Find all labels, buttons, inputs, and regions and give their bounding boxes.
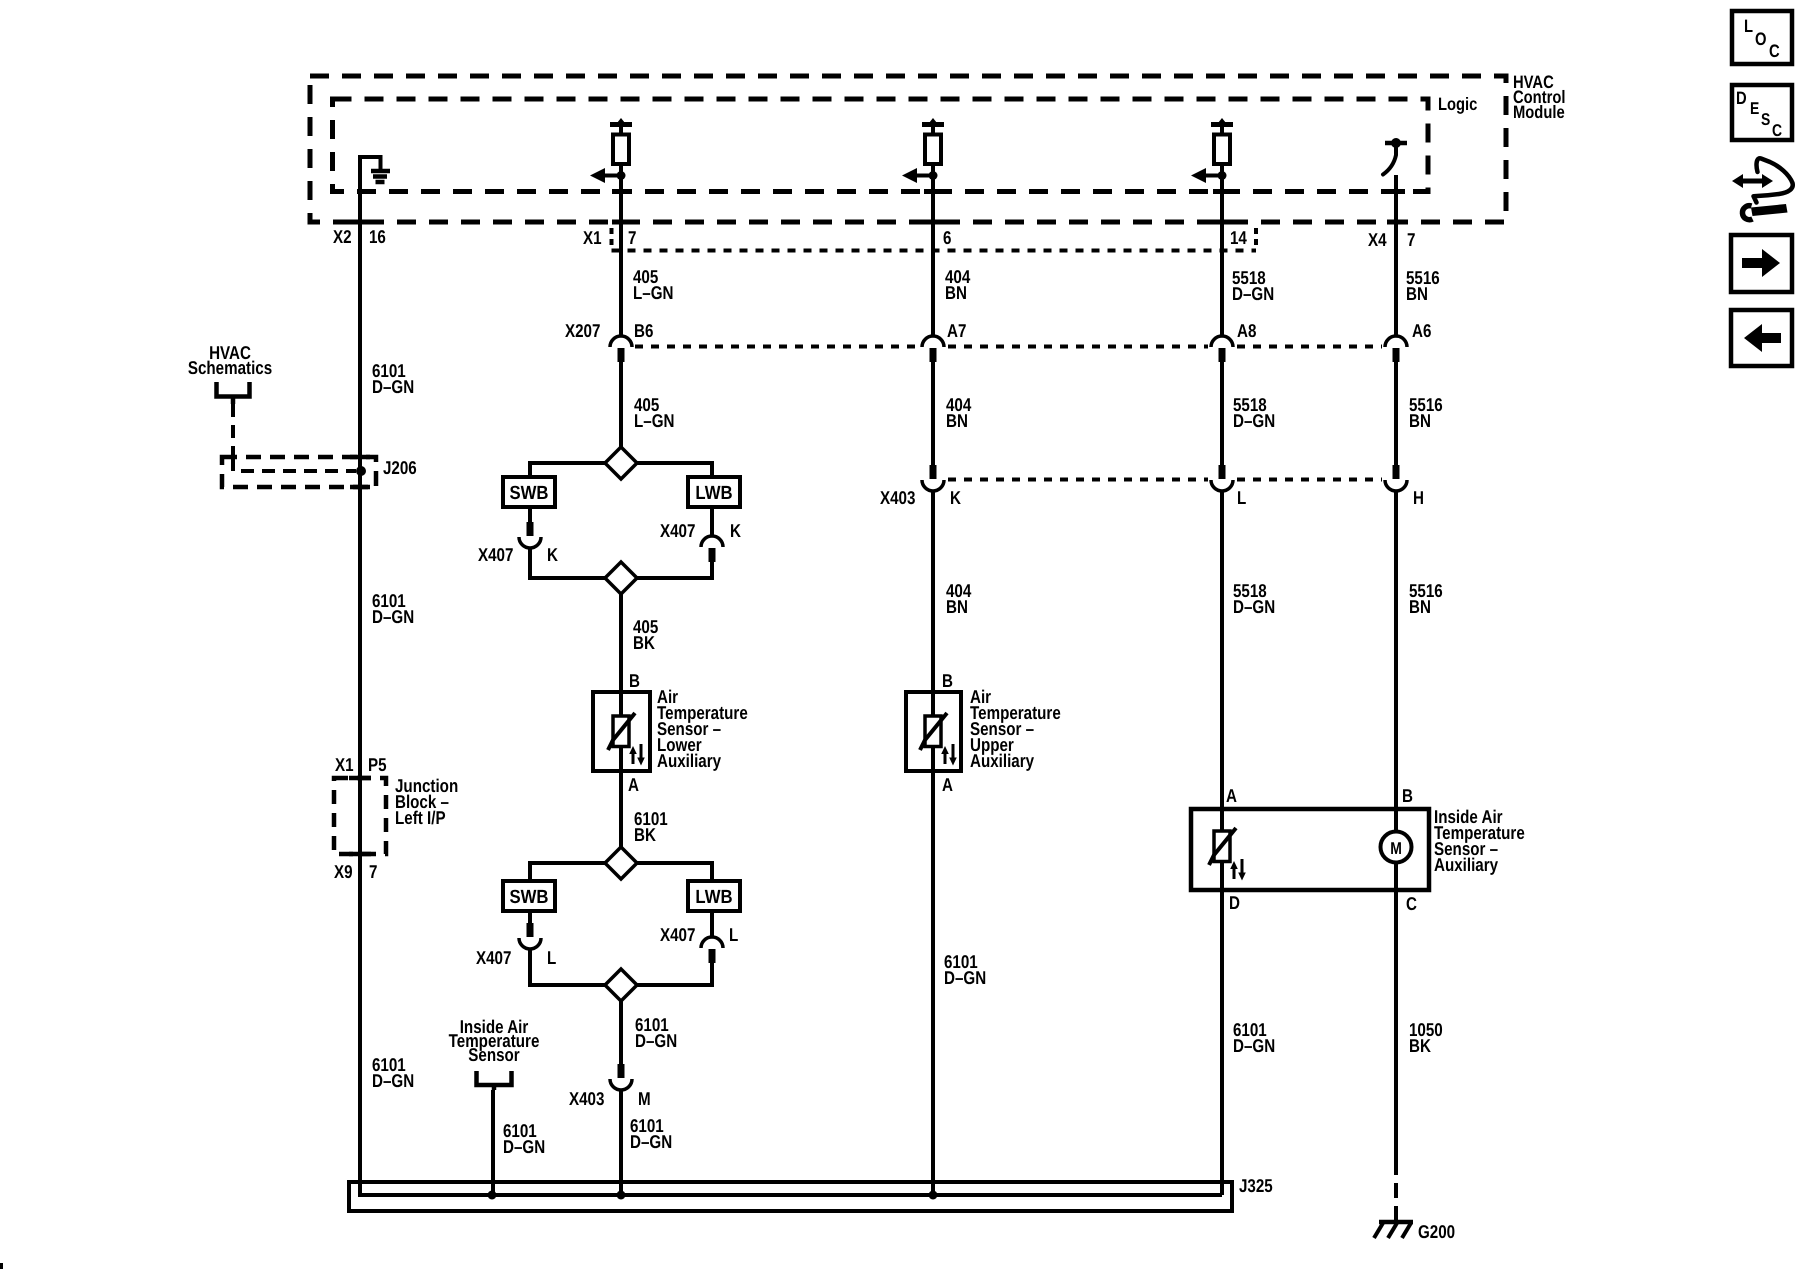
- connector X407 pin L (SWB side): [519, 923, 541, 949]
- svg-text:D–GN: D–GN: [503, 1136, 545, 1157]
- svg-text:D–GN: D–GN: [1233, 410, 1275, 431]
- svg-text:C: C: [1406, 893, 1417, 914]
- label 6101 D-GN (left wire, lower): [372, 1054, 414, 1091]
- connector X407 pin K (SWB side): [519, 522, 541, 548]
- svg-text:Left I/P: Left I/P: [395, 807, 446, 828]
- HVAC Control Module outer dashed box: [310, 76, 1506, 222]
- svg-text:D–GN: D–GN: [944, 967, 986, 988]
- label 405 L-GN: [634, 394, 674, 431]
- wire branch2 404 BN (X207-A7 to X403-K): [931, 362, 935, 465]
- signal arrow to logic from R2: [902, 168, 933, 183]
- svg-text:A: A: [628, 774, 639, 795]
- signal arrow to logic from R1: [590, 168, 621, 183]
- connector X207 pin B6: [610, 336, 632, 362]
- wire SWB drop: [528, 463, 532, 477]
- svg-text:D–GN: D–GN: [1233, 596, 1275, 617]
- svg-text:C: C: [1772, 121, 1782, 140]
- splice diamond S2 upper: [605, 562, 637, 594]
- svg-text:P5: P5: [368, 754, 387, 775]
- svg-text:D–GN: D–GN: [630, 1131, 672, 1152]
- svg-text:BN: BN: [1409, 596, 1431, 617]
- icon DESC button: [1732, 85, 1792, 140]
- Junction Block - Left I/P dashed box: [334, 778, 386, 854]
- svg-text:BN: BN: [945, 282, 967, 303]
- svg-text:X407: X407: [478, 544, 513, 565]
- svg-text:A: A: [1226, 785, 1237, 806]
- ground symbol inside module: [360, 157, 390, 182]
- label 6101 D-GN: [630, 1115, 672, 1152]
- icon back arrow button: [1731, 310, 1792, 366]
- wire branch1 6101 D-GN (splice to X403-M): [619, 1001, 623, 1064]
- wire dashed inside J206: [233, 458, 356, 471]
- svg-text:A: A: [942, 774, 953, 795]
- wire dashed to G200: [1394, 1160, 1398, 1221]
- svg-text:D: D: [1229, 892, 1240, 913]
- svg-text:D–GN: D–GN: [1232, 283, 1274, 304]
- svg-text:D–GN: D–GN: [372, 376, 414, 397]
- label Junction Block - Left I/P: [395, 775, 458, 828]
- label 6101 D-GN (left wire, upper): [372, 360, 414, 397]
- pin X1 7: [583, 227, 636, 248]
- svg-text:G200: G200: [1418, 1221, 1455, 1242]
- splice pack J206 dashed box: [222, 457, 376, 487]
- junction dot under R1: [617, 171, 626, 180]
- wire splice horizontal lower: [528, 576, 714, 580]
- wire left main (X2-16 circuit 6101 D-GN): [358, 155, 362, 1195]
- svg-text:BK: BK: [633, 632, 655, 653]
- svg-text:LWB: LWB: [695, 887, 732, 908]
- svg-text:A8: A8: [1237, 320, 1256, 341]
- svg-text:C: C: [1769, 41, 1780, 61]
- svg-text:D: D: [1736, 88, 1747, 108]
- thermistor element inside air temp sensor aux: [1209, 828, 1246, 881]
- wire LWB to X407 (lower): [710, 911, 714, 937]
- connector X403 dotted line: [948, 478, 1382, 482]
- splice diamond S2 lower: [605, 969, 637, 1001]
- label X407 L left: [476, 947, 556, 968]
- svg-text:D–GN: D–GN: [372, 1070, 414, 1091]
- label 6101 D-GN: [944, 951, 986, 988]
- wire X407 to lower splice right: [710, 562, 714, 578]
- junction dot (sensor wire to bus): [488, 1191, 497, 1200]
- base LWB (long wheel base) upper: [688, 477, 740, 507]
- junction dot under R3: [1218, 171, 1227, 180]
- svg-text:J325: J325: [1239, 1175, 1273, 1196]
- svg-text:Auxiliary: Auxiliary: [657, 750, 722, 771]
- thermistor element sensor lower auxiliary: [608, 713, 645, 766]
- svg-text:BN: BN: [946, 410, 968, 431]
- svg-text:M: M: [638, 1088, 651, 1109]
- dash ticks at wire crossings of dashed boxes: [349, 192, 1405, 855]
- wire dashed HVAC Schematics to J206: [231, 404, 235, 457]
- svg-text:6: 6: [943, 227, 951, 248]
- junction dot under R2: [929, 171, 938, 180]
- wire branch1 405 BK (splice to sensor B): [619, 594, 623, 692]
- svg-text:O: O: [1755, 29, 1766, 49]
- splice diamond S1 upper: [605, 447, 637, 479]
- label 6101 D-GN: [503, 1120, 545, 1157]
- ground bus J325 inner wire: [358, 1193, 1222, 1197]
- pin X1 P5 (junction block): [335, 754, 387, 775]
- svg-text:16: 16: [369, 226, 386, 247]
- junction dot switch S1: [1391, 138, 1401, 148]
- svg-text:7: 7: [628, 227, 636, 248]
- label HVAC Control Module: [1513, 72, 1565, 122]
- svg-text:X1: X1: [583, 227, 602, 248]
- label 6101 D-GN (left wire, middle): [372, 590, 414, 627]
- svg-text:X1: X1: [335, 754, 354, 775]
- svg-text:D–GN: D–GN: [1233, 1035, 1275, 1056]
- bracket HVAC Schematics: [217, 382, 250, 404]
- svg-text:L: L: [1744, 16, 1753, 36]
- junction dot J206: [356, 466, 366, 476]
- label 5516 BN: [1409, 394, 1443, 431]
- svg-text:B: B: [629, 670, 640, 691]
- resistor R2 (pull-up inside HVAC control module): [922, 118, 944, 178]
- svg-text:B: B: [1402, 785, 1413, 806]
- svg-text:BN: BN: [1406, 283, 1428, 304]
- svg-text:BK: BK: [634, 824, 656, 845]
- svg-text:X407: X407: [476, 947, 511, 968]
- connector X403 pin H: [1385, 465, 1407, 491]
- label 5516 BN: [1409, 580, 1443, 617]
- label 1050 BK: [1409, 1019, 1443, 1056]
- connector X1 bracket right: [1254, 228, 1258, 250]
- svg-text:K: K: [547, 544, 558, 565]
- svg-text:B: B: [942, 670, 953, 691]
- svg-text:LWB: LWB: [695, 483, 732, 504]
- wire LWB to X407: [710, 507, 714, 536]
- ground G200 symbol: [1374, 1222, 1413, 1238]
- svg-text:D–GN: D–GN: [635, 1030, 677, 1051]
- pin X9 7 (junction block): [334, 861, 377, 882]
- svg-text:7: 7: [369, 861, 377, 882]
- page artifact bottom left: [0, 1263, 3, 1269]
- connector X407 pin L (LWB side): [701, 937, 723, 963]
- connector X403 pin K: [922, 465, 944, 491]
- switch S1 (logic driver, X4-7 output): [1383, 143, 1407, 175]
- svg-text:K: K: [730, 520, 741, 541]
- wire branch1 6101 D-GN (X403-M to ground bus): [619, 1089, 623, 1195]
- wire inside air temp sensor 6101 D-GN to ground bus: [491, 1090, 495, 1195]
- wire branch4 5516 BN (X207-A6 to X403-H): [1394, 362, 1398, 465]
- splice diamond S1 lower: [605, 847, 637, 879]
- motor M (aspirator): [1381, 832, 1412, 863]
- label 6101 D-GN: [635, 1014, 677, 1051]
- label X403 M: [569, 1088, 651, 1109]
- label 5518 D-GN: [1233, 394, 1275, 431]
- svg-text:Module: Module: [1513, 102, 1565, 122]
- resistor R1 (pull-up inside HVAC control module): [610, 118, 632, 178]
- svg-text:Auxiliary: Auxiliary: [1434, 854, 1499, 875]
- label Air Temperature Sensor - Upper Auxiliary: [970, 686, 1061, 771]
- connector X1 dotted grouping line: [612, 249, 1257, 253]
- wire branch1 405 L-GN (X1-7 to X207-B6): [619, 164, 623, 336]
- base LWB lower: [688, 881, 740, 911]
- junction dot (branch1 to bus): [617, 1191, 626, 1200]
- svg-text:X407: X407: [660, 520, 695, 541]
- svg-text:X2: X2: [333, 226, 352, 247]
- icon LOC button: [1732, 11, 1792, 64]
- wire branch4 5516 BN then 1050 BK (X403-H to sensor and down): [1394, 490, 1398, 1160]
- bracket Inside Air Temperature Sensor: [477, 1071, 512, 1090]
- ground bus J325 box: [349, 1182, 1232, 1211]
- svg-text:L: L: [729, 924, 738, 945]
- pin X4 7: [1368, 229, 1415, 250]
- base SWB (short wheel base) upper: [503, 477, 555, 507]
- label X407 K left: [478, 544, 558, 565]
- svg-text:X403: X403: [569, 1088, 604, 1109]
- svg-text:X9: X9: [334, 861, 353, 882]
- svg-text:X407: X407: [660, 924, 695, 945]
- label 5518 D-GN: [1233, 580, 1275, 617]
- svg-text:L: L: [1237, 487, 1246, 508]
- connector X403 pin L: [1211, 465, 1233, 491]
- svg-text:L–GN: L–GN: [634, 410, 674, 431]
- wire X407 to lower splice left: [528, 547, 532, 578]
- thermistor element sensor upper auxiliary: [920, 713, 957, 766]
- wire SWB to X407: [528, 507, 532, 522]
- svg-text:E: E: [1750, 99, 1759, 118]
- label 5518 D-GN: [1232, 267, 1274, 304]
- svg-text:L: L: [547, 947, 556, 968]
- svg-text:SWB: SWB: [509, 483, 548, 504]
- resistor R3 (pull-up inside HVAC control module): [1211, 118, 1233, 178]
- Air Temperature Sensor - Upper Auxiliary box: [906, 692, 961, 771]
- svg-text:H: H: [1413, 487, 1424, 508]
- icon next arrow button: [1731, 235, 1792, 292]
- wire branch3 5518 D-GN then 6101 D-GN (X403-L to ground bus): [1220, 490, 1224, 1195]
- label 6101 BK: [634, 808, 668, 845]
- label 404 BN: [946, 580, 972, 617]
- label 404 BN: [946, 394, 972, 431]
- wire branch2 404 BN then 6101 D-GN (X403-K to ground bus): [931, 490, 935, 1195]
- label Inside Air Temperature Sensor - Auxiliary: [1434, 806, 1525, 875]
- connector X207 pin A8: [1211, 336, 1233, 362]
- svg-text:14: 14: [1230, 227, 1247, 248]
- svg-text:A7: A7: [947, 320, 966, 341]
- svg-text:BN: BN: [1409, 410, 1431, 431]
- label 405 BK: [633, 616, 658, 653]
- icon tools (double arrow and wrench): [1732, 158, 1793, 219]
- label 404 BN: [945, 266, 971, 303]
- wire branch2 404 BN (pin 6 to X207-A7): [931, 164, 935, 336]
- connector X207 pin A6: [1385, 336, 1407, 362]
- wire branch3 5518 D-GN (X207-A8 to X403-L): [1220, 362, 1224, 465]
- connector X407 pin K (LWB side): [701, 536, 723, 562]
- svg-text:S: S: [1761, 110, 1770, 129]
- svg-text:K: K: [950, 487, 961, 508]
- Air Temperature Sensor - Lower Auxiliary box: [593, 692, 650, 771]
- svg-text:X4: X4: [1368, 229, 1387, 250]
- pin X2 16: [333, 226, 386, 247]
- svg-text:SWB: SWB: [509, 887, 548, 908]
- wire branch4 5516 BN (X4-7 to X207-A6): [1394, 175, 1398, 336]
- label X407 L right: [660, 924, 738, 945]
- Logic inner dashed box: [333, 99, 1429, 192]
- label X407 K right: [660, 520, 741, 541]
- label 405 L-GN: [633, 266, 673, 303]
- svg-text:X403: X403: [880, 487, 915, 508]
- wire through sensor lower: [619, 692, 623, 771]
- svg-text:Sensor: Sensor: [468, 1044, 519, 1065]
- label Inside Air Temperature Sensor: [449, 1016, 540, 1065]
- connector X207 dotted line: [635, 345, 1382, 349]
- wire branch1 6101 BK (sensor A to splice): [619, 771, 623, 849]
- wire LWB drop: [710, 463, 714, 477]
- svg-text:Auxiliary: Auxiliary: [970, 750, 1035, 771]
- svg-text:L–GN: L–GN: [633, 282, 673, 303]
- svg-text:Logic: Logic: [1438, 94, 1477, 114]
- wire splice horizontal upper: [528, 461, 714, 465]
- label 6101 D-GN: [1233, 1019, 1275, 1056]
- base SWB lower: [503, 881, 555, 911]
- connector X1 bracket left: [610, 228, 614, 250]
- svg-text:B6: B6: [634, 320, 653, 341]
- svg-text:BN: BN: [946, 596, 968, 617]
- svg-text:7: 7: [1407, 229, 1415, 250]
- wire splice horizontal upper (lower section): [528, 861, 714, 865]
- label HVAC Schematics: [188, 342, 272, 378]
- signal arrow to logic from R3: [1191, 168, 1222, 183]
- connector X403 pin M: [610, 1064, 632, 1090]
- svg-text:A6: A6: [1412, 320, 1431, 341]
- wire splice horizontal bottom (lower section): [528, 983, 714, 987]
- svg-text:J206: J206: [383, 457, 417, 478]
- label 5516 BN: [1406, 267, 1440, 304]
- svg-text:BK: BK: [1409, 1035, 1431, 1056]
- wire branch1 405 L-GN (X207-B6 to splice): [619, 362, 623, 449]
- Inside Air Temperature Sensor - Auxiliary box: [1191, 809, 1429, 890]
- label Air Temperature Sensor - Lower Auxiliary: [657, 686, 748, 771]
- svg-text:M: M: [1390, 839, 1402, 858]
- svg-text:Schematics: Schematics: [188, 357, 272, 378]
- junction dot (branch2 to bus): [929, 1191, 938, 1200]
- svg-text:X207: X207: [565, 320, 600, 341]
- svg-text:D–GN: D–GN: [372, 606, 414, 627]
- wire branch3 5518 D-GN (pin 14 to X207-A8): [1220, 164, 1224, 336]
- wire SWB to X407 (lower): [528, 911, 532, 923]
- connector X207 pin A7: [922, 336, 944, 362]
